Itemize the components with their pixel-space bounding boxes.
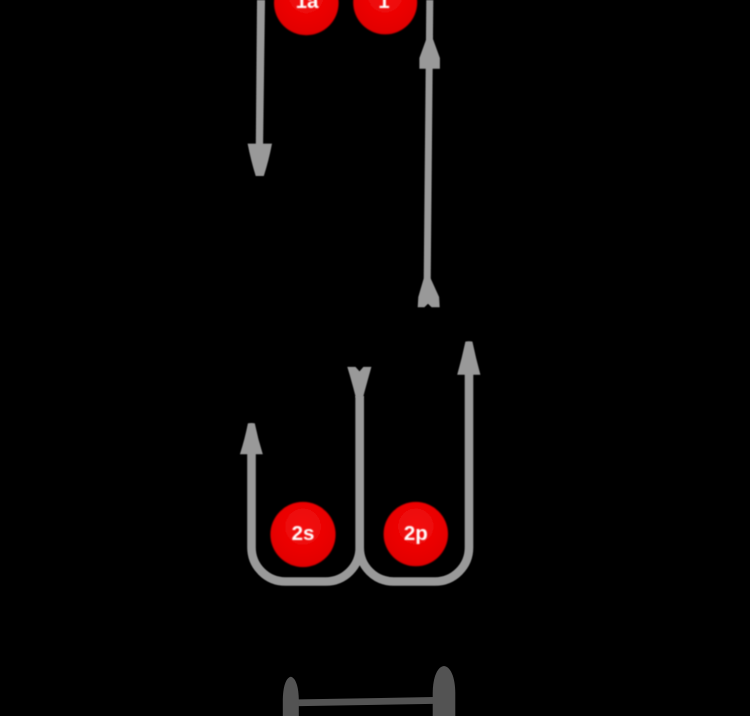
svg-text:2s: 2s xyxy=(292,522,315,545)
svg-text:1: 1 xyxy=(378,0,389,13)
svg-text:2p: 2p xyxy=(404,522,428,545)
svg-text:1a: 1a xyxy=(296,0,319,13)
